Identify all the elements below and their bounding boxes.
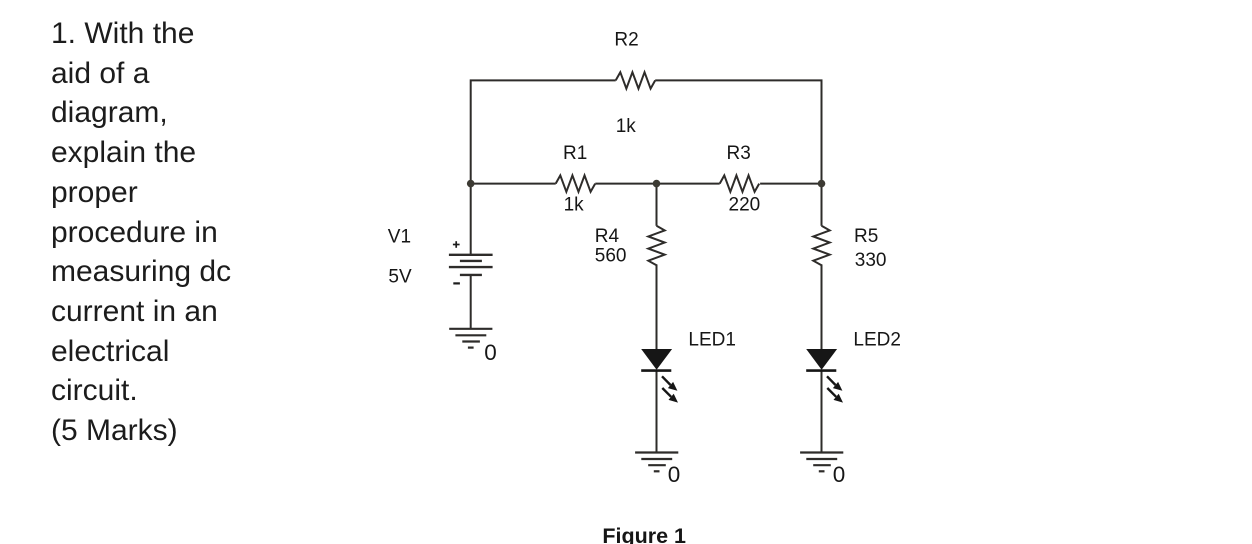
- battery V1: [449, 255, 493, 275]
- node junction middle: [653, 180, 661, 188]
- wire R5 top stem: [821, 184, 823, 226]
- ground LED1: [635, 453, 678, 472]
- svg-text:0: 0: [668, 462, 681, 487]
- svg-text:R2: R2: [614, 30, 638, 51]
- ground battery: [449, 329, 492, 348]
- svg-text:R1: R1: [563, 143, 587, 164]
- svg-text:220: 220: [729, 195, 761, 216]
- wire battery bottom stem: [470, 275, 472, 329]
- resistor R4: [648, 226, 664, 266]
- resistor R5: [813, 226, 829, 266]
- svg-text:5V: 5V: [388, 266, 412, 287]
- node junction left: [467, 180, 475, 188]
- ground LED2: [800, 453, 843, 472]
- resistor R2: [616, 72, 655, 88]
- svg-text:1k: 1k: [616, 116, 637, 137]
- svg-text:R3: R3: [727, 143, 751, 164]
- wire mid right segment: [760, 183, 821, 185]
- wire top left segment: [471, 80, 616, 183]
- battery minus sign: [453, 282, 460, 284]
- resistor R3: [720, 175, 759, 191]
- wire battery top stem: [470, 184, 472, 255]
- wire LED1 to ground: [656, 371, 658, 452]
- wire R4 to LED1: [656, 264, 658, 349]
- svg-text:R4: R4: [595, 226, 620, 247]
- svg-text:0: 0: [833, 462, 846, 487]
- svg-text:R5: R5: [854, 226, 878, 247]
- svg-text:V1: V1: [388, 226, 411, 247]
- svg-text:0: 0: [484, 340, 497, 365]
- svg-text:Figure 1: Figure 1: [602, 524, 686, 544]
- wire top right segment: [655, 80, 821, 183]
- svg-text:330: 330: [855, 250, 887, 271]
- wire mid left segment: [471, 183, 556, 185]
- svg-text:560: 560: [595, 245, 627, 266]
- svg-text:LED2: LED2: [853, 329, 901, 350]
- svg-text:LED1: LED1: [688, 329, 736, 350]
- wire R4 top stem: [656, 184, 658, 226]
- resistor R1: [556, 175, 595, 191]
- wire LED2 to ground: [821, 371, 823, 452]
- wire mid middle segment: [595, 183, 719, 185]
- node junction right: [818, 180, 826, 188]
- wire R5 to LED2: [821, 264, 823, 349]
- svg-text:1k: 1k: [564, 195, 585, 216]
- battery plus sign: [453, 241, 460, 248]
- LED2: [806, 349, 843, 403]
- LED1: [641, 349, 678, 403]
